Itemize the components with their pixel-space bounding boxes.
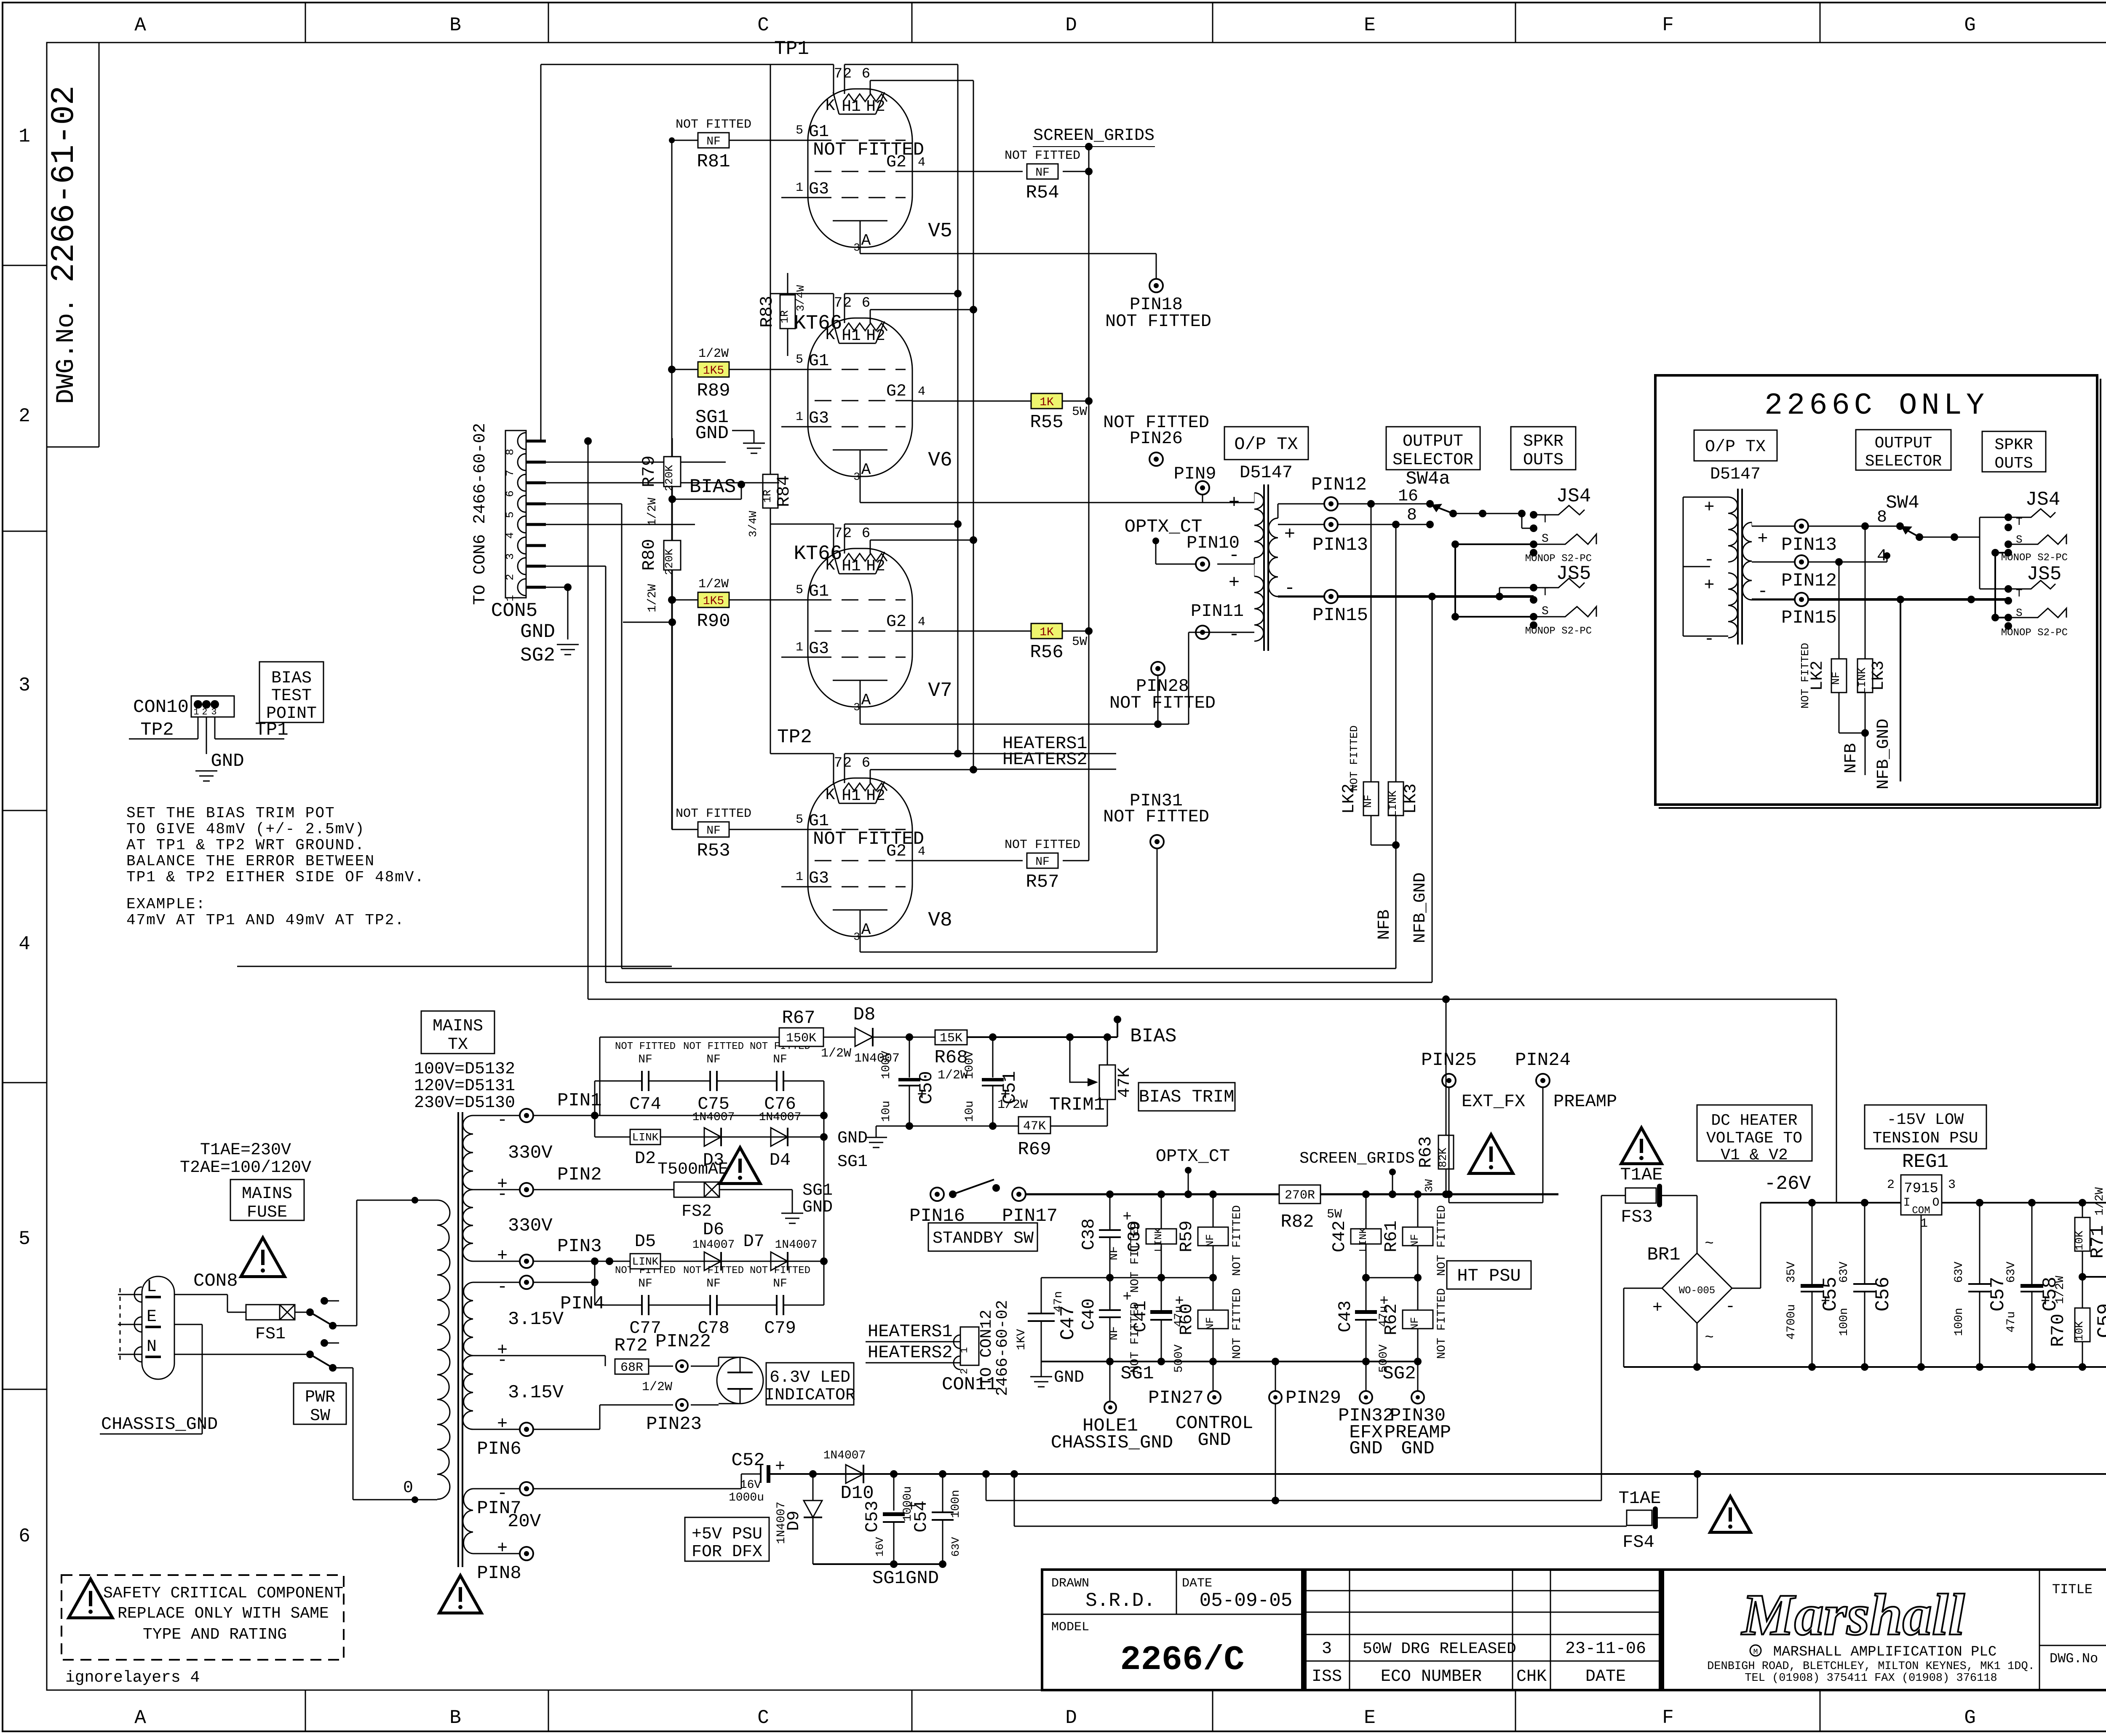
svg-text:NOT FITTED: NOT FITTED bbox=[813, 139, 924, 160]
svg-text:VOLTAGE TO: VOLTAGE TO bbox=[1706, 1129, 1802, 1148]
svg-text:100V=D5132: 100V=D5132 bbox=[414, 1060, 515, 1079]
svg-text:TP1: TP1 bbox=[255, 720, 288, 741]
svg-text:LINK: LINK bbox=[632, 1131, 659, 1144]
svg-text:D5: D5 bbox=[635, 1231, 656, 1252]
svg-text:SPKR: SPKR bbox=[1994, 436, 2033, 454]
svg-text:R63: R63 bbox=[1416, 1136, 1436, 1168]
svg-text:7915: 7915 bbox=[1904, 1181, 1938, 1197]
svg-text:SET THE BIAS TRIM POT: SET THE BIAS TRIM POT bbox=[126, 805, 335, 822]
svg-text:H2: H2 bbox=[866, 327, 885, 345]
svg-text:1/2W: 1/2W bbox=[646, 498, 659, 526]
svg-text:120V=D5131: 120V=D5131 bbox=[414, 1077, 515, 1096]
svg-text:GND: GND bbox=[837, 1129, 868, 1148]
svg-text:2: 2 bbox=[19, 405, 30, 427]
svg-text:R89: R89 bbox=[697, 380, 730, 401]
svg-text:MONOP S2-PC: MONOP S2-PC bbox=[1525, 626, 1592, 637]
svg-text:TO GIVE 48mV (+/- 2.5mV): TO GIVE 48mV (+/- 2.5mV) bbox=[126, 821, 365, 838]
svg-text:220K: 220K bbox=[663, 465, 676, 491]
svg-text:PIN27: PIN27 bbox=[1148, 1388, 1204, 1409]
svg-text:3: 3 bbox=[211, 707, 216, 717]
svg-text:0: 0 bbox=[403, 1479, 413, 1498]
svg-text:GND: GND bbox=[211, 751, 244, 772]
svg-text:6: 6 bbox=[862, 526, 870, 542]
svg-text:NF: NF bbox=[1362, 794, 1374, 808]
svg-text:330V: 330V bbox=[508, 1142, 553, 1164]
svg-text:TP1: TP1 bbox=[774, 38, 809, 60]
svg-text:R54: R54 bbox=[1026, 182, 1059, 203]
svg-text:G1: G1 bbox=[809, 812, 829, 831]
svg-text:NOT FITTED: NOT FITTED bbox=[1005, 149, 1080, 163]
svg-text:PIN12: PIN12 bbox=[1781, 570, 1837, 591]
svg-text:LK3: LK3 bbox=[1869, 661, 1888, 691]
svg-text:2: 2 bbox=[959, 1368, 970, 1374]
svg-text:1/2W: 1/2W bbox=[997, 1098, 1028, 1112]
svg-text:NF: NF bbox=[773, 1053, 787, 1066]
svg-text:V7: V7 bbox=[928, 679, 952, 702]
svg-text:NFB: NFB bbox=[1842, 743, 1861, 773]
svg-text:+: + bbox=[1704, 497, 1714, 517]
svg-text:3: 3 bbox=[1322, 1640, 1332, 1658]
svg-text:V5: V5 bbox=[928, 220, 952, 243]
svg-text:1N4007: 1N4007 bbox=[775, 1238, 818, 1252]
svg-text:+: + bbox=[1284, 524, 1295, 545]
svg-text:1/2W: 1/2W bbox=[698, 577, 729, 591]
svg-text:S: S bbox=[2016, 533, 2023, 546]
svg-text:A: A bbox=[861, 461, 871, 479]
svg-text:R82: R82 bbox=[1280, 1212, 1314, 1233]
svg-text:MARSHALL AMPLIFICATION PLC: MARSHALL AMPLIFICATION PLC bbox=[1773, 1644, 1997, 1660]
svg-text:TO CON12: TO CON12 bbox=[978, 1310, 996, 1386]
svg-text:MAINS: MAINS bbox=[242, 1185, 292, 1204]
svg-text:1/2W: 1/2W bbox=[2093, 1187, 2106, 1215]
svg-text:6: 6 bbox=[862, 755, 870, 771]
svg-text:NOT FITTED: NOT FITTED bbox=[1231, 1288, 1244, 1359]
svg-text:D8: D8 bbox=[853, 1004, 876, 1025]
svg-text:R56: R56 bbox=[1030, 642, 1063, 663]
svg-text:3W: 3W bbox=[1423, 1179, 1435, 1193]
svg-text:1N4007: 1N4007 bbox=[692, 1111, 735, 1124]
svg-text:2266C ONLY: 2266C ONLY bbox=[1764, 388, 1988, 423]
svg-text:NFB_GND: NFB_GND bbox=[1411, 872, 1430, 943]
svg-text:NOT FITTED: NOT FITTED bbox=[1005, 838, 1080, 852]
svg-text:NOT FITTED: NOT FITTED bbox=[750, 1265, 810, 1276]
svg-text:TYPE AND RATING: TYPE AND RATING bbox=[143, 1626, 287, 1644]
svg-text:PIN15: PIN15 bbox=[1312, 605, 1368, 626]
svg-text:CON5: CON5 bbox=[491, 600, 537, 622]
svg-text:R62: R62 bbox=[1381, 1303, 1401, 1335]
svg-text:DENBIGH ROAD, BLETCHLEY, MILTO: DENBIGH ROAD, BLETCHLEY, MILTON KEYNES, … bbox=[1707, 1660, 2035, 1673]
svg-text:HEATERS1: HEATERS1 bbox=[868, 1321, 953, 1342]
svg-text:H2: H2 bbox=[866, 557, 885, 575]
svg-text:1N4007: 1N4007 bbox=[775, 1502, 788, 1544]
svg-text:NF: NF bbox=[1408, 1317, 1421, 1330]
svg-text:1: 1 bbox=[796, 640, 803, 655]
svg-text:2: 2 bbox=[202, 707, 207, 717]
svg-text:3: 3 bbox=[853, 241, 860, 254]
svg-text:16V: 16V bbox=[874, 1537, 886, 1557]
svg-text:SAFETY CRITICAL COMPONENT: SAFETY CRITICAL COMPONENT bbox=[103, 1584, 343, 1602]
svg-text:V6: V6 bbox=[928, 449, 952, 472]
svg-text:C38: C38 bbox=[1079, 1218, 1099, 1250]
svg-text:R55: R55 bbox=[1030, 412, 1063, 433]
svg-text:B: B bbox=[449, 14, 461, 36]
svg-text:KT66: KT66 bbox=[794, 543, 842, 565]
svg-text:10u: 10u bbox=[880, 1101, 893, 1122]
svg-text:G1: G1 bbox=[809, 352, 829, 371]
svg-text:HEATERS2: HEATERS2 bbox=[1002, 749, 1088, 770]
svg-text:2: 2 bbox=[504, 574, 516, 580]
svg-text:500V: 500V bbox=[1173, 1344, 1186, 1372]
svg-text:SG1: SG1 bbox=[802, 1181, 833, 1200]
svg-text:1/2W: 1/2W bbox=[642, 1380, 672, 1394]
svg-text:R60: R60 bbox=[1176, 1303, 1197, 1335]
svg-text:15K: 15K bbox=[940, 1031, 962, 1046]
svg-text:R57: R57 bbox=[1026, 872, 1059, 893]
svg-text:TRIM1: TRIM1 bbox=[1049, 1094, 1105, 1115]
svg-text:NOT FITTED: NOT FITTED bbox=[1105, 311, 1211, 332]
svg-text:PIN2: PIN2 bbox=[557, 1164, 602, 1185]
svg-text:NF: NF bbox=[706, 824, 721, 837]
svg-text:D6: D6 bbox=[703, 1220, 724, 1240]
svg-text:270R: 270R bbox=[1285, 1188, 1315, 1203]
svg-text:D5147: D5147 bbox=[1240, 463, 1293, 483]
svg-text:2266/C: 2266/C bbox=[1120, 1640, 1244, 1680]
svg-text:PIN25: PIN25 bbox=[1421, 1050, 1477, 1071]
svg-text:NF: NF bbox=[773, 1277, 787, 1290]
svg-text:1K5: 1K5 bbox=[703, 364, 724, 377]
svg-text:O/P TX: O/P TX bbox=[1234, 434, 1298, 455]
svg-text:3: 3 bbox=[853, 931, 860, 943]
svg-text:B: B bbox=[449, 1707, 461, 1729]
svg-text:G: G bbox=[1964, 14, 1976, 36]
svg-text:S: S bbox=[1542, 605, 1549, 618]
svg-text:C53: C53 bbox=[862, 1501, 882, 1533]
svg-text:2: 2 bbox=[1887, 1178, 1895, 1192]
svg-text:1: 1 bbox=[193, 707, 199, 717]
svg-text:OPTX_CT: OPTX_CT bbox=[1156, 1146, 1230, 1166]
svg-text:GND: GND bbox=[695, 423, 729, 444]
svg-text:E: E bbox=[1364, 1707, 1376, 1729]
svg-text:DWG.No: DWG.No bbox=[2050, 1651, 2098, 1666]
svg-text:L: L bbox=[147, 1278, 157, 1297]
svg-text:DRAWN: DRAWN bbox=[1051, 1576, 1089, 1591]
svg-text:-: - bbox=[497, 1184, 508, 1204]
svg-text:1/2W: 1/2W bbox=[2054, 1276, 2067, 1304]
svg-text:CON10: CON10 bbox=[133, 697, 189, 718]
svg-text:-: - bbox=[497, 1110, 508, 1130]
svg-text:BIAS TRIM: BIAS TRIM bbox=[1139, 1087, 1235, 1107]
svg-text:1KV: 1KV bbox=[1015, 1329, 1028, 1351]
svg-text:PIN4: PIN4 bbox=[560, 1293, 605, 1314]
svg-text:5: 5 bbox=[504, 511, 516, 518]
svg-text:-: - bbox=[497, 1277, 508, 1297]
svg-text:SG1: SG1 bbox=[1120, 1363, 1154, 1384]
svg-text:1K: 1K bbox=[1040, 396, 1054, 409]
svg-text:G3: G3 bbox=[809, 639, 829, 658]
svg-text:C39: C39 bbox=[1125, 1220, 1145, 1252]
svg-text:+: + bbox=[1757, 529, 1768, 549]
svg-text:NF: NF bbox=[1830, 671, 1842, 685]
svg-text:PIN7: PIN7 bbox=[477, 1498, 521, 1519]
svg-text:OUTS: OUTS bbox=[1994, 455, 2033, 473]
svg-text:PIN12: PIN12 bbox=[1311, 474, 1367, 495]
svg-text:7: 7 bbox=[504, 470, 516, 476]
svg-text:NF: NF bbox=[706, 135, 721, 148]
svg-text:C43: C43 bbox=[1335, 1300, 1355, 1332]
svg-text:R81: R81 bbox=[697, 151, 730, 172]
svg-text:A: A bbox=[861, 232, 871, 250]
svg-text:R80: R80 bbox=[639, 539, 659, 571]
svg-text:3.15V: 3.15V bbox=[508, 1309, 564, 1330]
svg-text:NOT FITTED: NOT FITTED bbox=[1348, 725, 1360, 791]
svg-text:NFB_GND: NFB_GND bbox=[1874, 719, 1893, 789]
svg-text:+: + bbox=[497, 1246, 508, 1266]
svg-text:G3: G3 bbox=[809, 869, 829, 888]
svg-text:6: 6 bbox=[862, 66, 870, 82]
svg-text:G: G bbox=[1964, 1707, 1976, 1729]
svg-text:BIAS: BIAS bbox=[690, 476, 736, 498]
svg-text:C74: C74 bbox=[629, 1094, 661, 1114]
svg-text:R67: R67 bbox=[782, 1008, 815, 1029]
svg-text:4700u: 4700u bbox=[1785, 1304, 1798, 1340]
svg-text:HT PSU: HT PSU bbox=[1457, 1266, 1521, 1286]
svg-text:FS4: FS4 bbox=[1622, 1532, 1654, 1552]
svg-text:10K: 10K bbox=[2073, 1230, 2086, 1250]
svg-text:FOR DFX: FOR DFX bbox=[692, 1543, 762, 1562]
svg-text:D7: D7 bbox=[743, 1231, 764, 1252]
svg-text:NOT FITTED: NOT FITTED bbox=[1109, 693, 1216, 713]
svg-text:50W DRG RELEASED: 50W DRG RELEASED bbox=[1363, 1640, 1516, 1658]
svg-text:V8: V8 bbox=[928, 909, 952, 932]
svg-text:4: 4 bbox=[504, 532, 516, 539]
svg-text:C47: C47 bbox=[1057, 1305, 1079, 1340]
svg-text:16: 16 bbox=[1398, 487, 1418, 506]
svg-text:5: 5 bbox=[796, 583, 803, 597]
svg-text:ignorelayers 4: ignorelayers 4 bbox=[65, 1669, 200, 1687]
svg-text:8: 8 bbox=[504, 449, 516, 455]
svg-text:NF: NF bbox=[1035, 166, 1050, 179]
svg-text:NOT FITTED: NOT FITTED bbox=[813, 829, 924, 850]
svg-text:+: + bbox=[497, 1414, 508, 1434]
svg-text:H2: H2 bbox=[866, 787, 885, 805]
svg-text:REG1: REG1 bbox=[1902, 1151, 1948, 1173]
svg-text:AT TP1 & TP2 WRT GROUND.: AT TP1 & TP2 WRT GROUND. bbox=[126, 837, 365, 854]
svg-text:3: 3 bbox=[853, 471, 860, 483]
svg-text:COM: COM bbox=[1912, 1205, 1930, 1217]
svg-text:H2: H2 bbox=[866, 98, 885, 116]
svg-text:SW4a: SW4a bbox=[1406, 468, 1450, 490]
svg-text:N: N bbox=[147, 1337, 157, 1356]
svg-text:1/2W: 1/2W bbox=[698, 347, 729, 361]
svg-text:I: I bbox=[1903, 1196, 1911, 1209]
svg-text:CON8: CON8 bbox=[193, 1271, 238, 1292]
svg-text:C: C bbox=[757, 14, 769, 36]
svg-text:C41: C41 bbox=[1131, 1300, 1151, 1332]
svg-text:PIN13: PIN13 bbox=[1781, 535, 1837, 556]
svg-text:D5147: D5147 bbox=[1710, 465, 1761, 484]
svg-text:7: 7 bbox=[834, 526, 842, 542]
svg-text:TP2: TP2 bbox=[140, 720, 174, 741]
svg-text:C54: C54 bbox=[911, 1501, 931, 1533]
svg-text:LINK: LINK bbox=[632, 1255, 659, 1268]
svg-text:-: - bbox=[1229, 545, 1240, 566]
svg-text:T1AE=230V: T1AE=230V bbox=[200, 1141, 291, 1160]
svg-text:TEL (01908) 375411 FAX (01908): TEL (01908) 375411 FAX (01908) 376118 bbox=[1745, 1672, 1997, 1685]
svg-text:PWR: PWR bbox=[305, 1388, 335, 1407]
svg-text:63V: 63V bbox=[949, 1537, 962, 1557]
svg-text:-: - bbox=[497, 1350, 508, 1370]
svg-text:C42: C42 bbox=[1329, 1220, 1350, 1252]
svg-text:A: A bbox=[134, 14, 146, 36]
svg-text:T: T bbox=[1542, 513, 1549, 526]
svg-text:T: T bbox=[2016, 516, 2023, 528]
svg-text:LINK: LINK bbox=[1856, 667, 1868, 694]
svg-text:EXT_FX: EXT_FX bbox=[1462, 1091, 1525, 1112]
svg-text:5: 5 bbox=[19, 1228, 30, 1250]
svg-text:8: 8 bbox=[1407, 506, 1417, 525]
svg-text:68R: 68R bbox=[620, 1361, 643, 1375]
svg-text:T2AE=100/120V: T2AE=100/120V bbox=[180, 1158, 311, 1177]
svg-text:C56: C56 bbox=[1872, 1277, 1894, 1312]
svg-text:SCREEN_GRIDS: SCREEN_GRIDS bbox=[1033, 126, 1155, 145]
svg-text:FUSE: FUSE bbox=[247, 1203, 287, 1222]
svg-text:+: + bbox=[2041, 1293, 2050, 1311]
svg-text:-: - bbox=[1704, 629, 1714, 649]
svg-text:NF: NF bbox=[638, 1053, 652, 1066]
svg-text:16V: 16V bbox=[740, 1479, 762, 1492]
svg-text:PIN31: PIN31 bbox=[1130, 791, 1183, 811]
svg-text:100V: 100V bbox=[963, 1051, 976, 1079]
svg-text:3: 3 bbox=[504, 553, 516, 560]
svg-text:PIN13: PIN13 bbox=[1312, 535, 1368, 556]
svg-text:CHASSIS_GND: CHASSIS_GND bbox=[1051, 1432, 1173, 1453]
svg-text:E: E bbox=[147, 1308, 157, 1327]
svg-text:TP2: TP2 bbox=[777, 726, 812, 748]
svg-text:82K: 82K bbox=[1437, 1148, 1449, 1167]
svg-text:1N4007: 1N4007 bbox=[823, 1449, 866, 1462]
svg-text:BR1: BR1 bbox=[1647, 1244, 1680, 1265]
svg-text:5: 5 bbox=[796, 123, 803, 138]
svg-text:-: - bbox=[1229, 624, 1240, 645]
svg-text:G1: G1 bbox=[809, 123, 829, 142]
svg-text:WO-005: WO-005 bbox=[1679, 1285, 1715, 1297]
svg-text:+: + bbox=[1229, 572, 1240, 594]
svg-text:5: 5 bbox=[796, 813, 803, 827]
svg-text:G2: G2 bbox=[886, 613, 906, 631]
svg-text:ECO NUMBER: ECO NUMBER bbox=[1381, 1667, 1482, 1686]
svg-text:10K: 10K bbox=[2073, 1321, 2086, 1341]
svg-text:STANDBY SW: STANDBY SW bbox=[933, 1229, 1034, 1248]
svg-text:D2: D2 bbox=[635, 1148, 656, 1169]
svg-text:PIN26: PIN26 bbox=[1130, 428, 1183, 449]
svg-text:D: D bbox=[1065, 1707, 1077, 1729]
svg-text:1: 1 bbox=[19, 126, 30, 147]
svg-text:C52: C52 bbox=[731, 1450, 764, 1471]
svg-text:LK3: LK3 bbox=[1402, 784, 1421, 814]
svg-text:FS1: FS1 bbox=[255, 1325, 286, 1344]
svg-text:T500mAE: T500mAE bbox=[657, 1160, 728, 1179]
svg-text:OUTS: OUTS bbox=[1523, 451, 1563, 470]
svg-text:K: K bbox=[826, 97, 835, 115]
svg-text:D: D bbox=[1065, 14, 1077, 36]
svg-text:O: O bbox=[1932, 1196, 1940, 1209]
svg-text:C40: C40 bbox=[1079, 1298, 1099, 1330]
svg-text:SPKR: SPKR bbox=[1523, 432, 1563, 451]
svg-text:LINK: LINK bbox=[1153, 1228, 1165, 1252]
svg-text:R53: R53 bbox=[697, 840, 730, 861]
svg-text:NOT FITTED: NOT FITTED bbox=[683, 1265, 744, 1276]
svg-text:REPLACE ONLY WITH SAME: REPLACE ONLY WITH SAME bbox=[118, 1605, 329, 1623]
svg-text:SG2: SG2 bbox=[1382, 1363, 1416, 1384]
svg-text:TITLE: TITLE bbox=[2052, 1582, 2093, 1597]
svg-text:E: E bbox=[1364, 14, 1376, 36]
svg-text:G3: G3 bbox=[809, 409, 829, 428]
svg-text:NF: NF bbox=[1204, 1234, 1216, 1247]
svg-text:7: 7 bbox=[834, 295, 842, 311]
svg-text:1/2W: 1/2W bbox=[821, 1046, 851, 1061]
svg-text:OUTPUT: OUTPUT bbox=[1403, 432, 1463, 451]
svg-text:1K5: 1K5 bbox=[703, 595, 724, 608]
svg-text:JS5: JS5 bbox=[1556, 563, 1591, 585]
svg-text:23-11-06: 23-11-06 bbox=[1565, 1640, 1646, 1658]
svg-text:3.15V: 3.15V bbox=[508, 1382, 564, 1403]
svg-text:6: 6 bbox=[862, 295, 870, 311]
svg-text:7: 7 bbox=[834, 66, 842, 82]
svg-text:NOT FITTED: NOT FITTED bbox=[676, 807, 751, 821]
svg-text:C79: C79 bbox=[764, 1318, 796, 1338]
svg-text:63V: 63V bbox=[1953, 1262, 1966, 1283]
svg-text:PIN24: PIN24 bbox=[1515, 1050, 1571, 1071]
svg-text:KT66: KT66 bbox=[794, 312, 842, 335]
svg-text:+: + bbox=[917, 1086, 927, 1105]
svg-text:PIN23: PIN23 bbox=[646, 1414, 702, 1435]
svg-text:PIN8: PIN8 bbox=[477, 1563, 521, 1584]
svg-text:3/4W: 3/4W bbox=[794, 285, 807, 311]
svg-text:DC HEATER: DC HEATER bbox=[1711, 1112, 1797, 1130]
svg-text:S: S bbox=[1542, 532, 1549, 546]
svg-text:TP1 & TP2 EITHER SIDE OF 48mV.: TP1 & TP2 EITHER SIDE OF 48mV. bbox=[126, 869, 425, 886]
svg-text:SW: SW bbox=[310, 1407, 330, 1426]
svg-text:150K: 150K bbox=[786, 1031, 816, 1046]
svg-text:R72: R72 bbox=[614, 1335, 647, 1356]
svg-text:2466-60-02: 2466-60-02 bbox=[994, 1300, 1012, 1396]
svg-text:7: 7 bbox=[834, 755, 842, 771]
svg-text:+: + bbox=[497, 1538, 508, 1558]
svg-text:NF: NF bbox=[1035, 856, 1050, 869]
svg-text:-15V LOW: -15V LOW bbox=[1887, 1111, 1964, 1129]
svg-text:T1AE: T1AE bbox=[1620, 1165, 1663, 1185]
svg-text:PIN29: PIN29 bbox=[1286, 1388, 1341, 1409]
svg-text:T: T bbox=[1542, 586, 1549, 599]
svg-text:~: ~ bbox=[1705, 1329, 1714, 1346]
svg-text:NF: NF bbox=[638, 1277, 652, 1290]
svg-text:TX: TX bbox=[448, 1035, 468, 1054]
svg-text:100n: 100n bbox=[1838, 1308, 1851, 1336]
svg-text:G1: G1 bbox=[809, 582, 829, 601]
svg-text:-: - bbox=[1284, 578, 1295, 599]
svg-text:GND: GND bbox=[1197, 1430, 1231, 1451]
svg-text:SG1GND: SG1GND bbox=[872, 1568, 939, 1589]
svg-text:M: M bbox=[1753, 1648, 1758, 1656]
svg-text:PREAMP: PREAMP bbox=[1553, 1091, 1617, 1112]
svg-text:MONOP S2-PC: MONOP S2-PC bbox=[2001, 552, 2068, 564]
svg-text:1K: 1K bbox=[1040, 626, 1054, 639]
svg-text:SELECTOR: SELECTOR bbox=[1392, 451, 1473, 470]
svg-text:MODEL: MODEL bbox=[1051, 1620, 1089, 1634]
svg-text:NOT FITTED: NOT FITTED bbox=[1799, 643, 1812, 709]
svg-text:H1: H1 bbox=[842, 98, 861, 116]
svg-text:+: + bbox=[1704, 575, 1714, 595]
